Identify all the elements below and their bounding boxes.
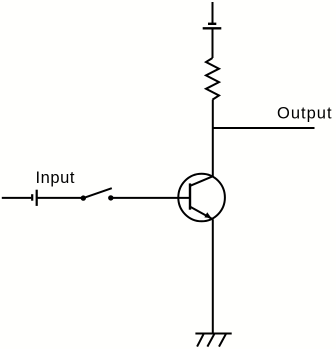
switch S1 pole contact [81, 195, 86, 200]
battery B1 (supply cell, long plate) [203, 27, 222, 29]
transistor Q1 collector stroke [189, 176, 213, 186]
wire: switch to base [111, 197, 189, 199]
battery B2 (input cell, long plate) [36, 190, 38, 206]
ground hatch 2 [207, 334, 214, 347]
transistor Q1 body circle [178, 174, 225, 222]
battery B2 (input cell, short plate) [31, 194, 33, 201]
wire: input lead left [2, 197, 32, 199]
wire: resistor to collector [212, 100, 214, 177]
resistor R1 [206, 58, 219, 100]
wire: emitter to ground [212, 219, 214, 333]
ground bar [195, 333, 231, 335]
wire: top supply lead [212, 2, 214, 23]
wire: battery to switch [37, 197, 82, 199]
ground hatch 3 [219, 334, 226, 347]
transistor Q1 emitter arrowhead [204, 212, 211, 218]
transistor Q1 base bar [189, 183, 191, 209]
ground hatch 1 [197, 334, 204, 347]
svg-text:Output: Output [277, 105, 333, 123]
wire: output branch [212, 127, 315, 129]
switch S1 throw contact [108, 195, 113, 200]
switch S1 lever [83, 188, 112, 198]
svg-text:Input: Input [36, 169, 75, 187]
battery B1 (supply cell, short plate) [208, 23, 216, 25]
transistor Q1 emitter stroke [189, 206, 213, 219]
wire: battery to resistor [212, 28, 214, 58]
